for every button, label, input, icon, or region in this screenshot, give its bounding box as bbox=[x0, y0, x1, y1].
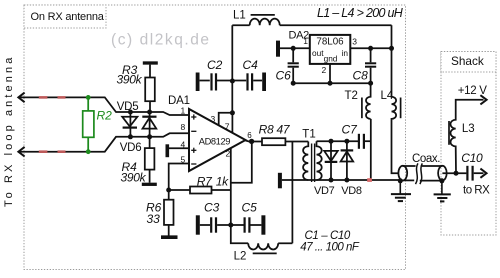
junction dot pins 3,7 bbox=[230, 110, 235, 115]
svg-text:L3: L3 bbox=[462, 123, 475, 135]
wire feedback node to R7 bbox=[169, 189, 190, 191]
svg-text:L1: L1 bbox=[233, 9, 246, 21]
diode VD6 bbox=[142, 112, 156, 137]
svg-text:L1 – L4 > 200 uH: L1 – L4 > 200 uH bbox=[317, 6, 404, 20]
capacitor C2 bbox=[200, 73, 233, 90]
svg-text:C4: C4 bbox=[243, 58, 259, 72]
wire secondary top rail to C7 bbox=[317, 140, 359, 142]
svg-text:1: 1 bbox=[181, 106, 186, 116]
svg-text:C10: C10 bbox=[461, 151, 483, 165]
junction dot feedback node bbox=[166, 188, 171, 193]
junction dot C3/C5 node bbox=[228, 223, 233, 228]
wire coax centre to C10 bbox=[442, 172, 466, 174]
arrow +12V input bbox=[480, 95, 486, 104]
ground bar left of C3 bbox=[196, 215, 200, 234]
capacitor C8 bbox=[365, 48, 376, 83]
junction dot output node bbox=[249, 139, 254, 144]
svg-text:in: in bbox=[342, 48, 349, 58]
junction dot L3 node bbox=[454, 171, 459, 176]
svg-text:VD5: VD5 bbox=[117, 101, 139, 113]
svg-text:VD7: VD7 bbox=[314, 185, 335, 197]
wire output feedback loop down bbox=[231, 142, 252, 183]
coax shield bottom line bbox=[400, 179, 442, 181]
svg-text:gnd: gnd bbox=[324, 54, 338, 64]
svg-text:C1 – C10: C1 – C10 bbox=[305, 230, 351, 242]
wire pin 5 to feedback node bbox=[169, 164, 189, 191]
wire bottom rail to coax shield bbox=[282, 179, 400, 181]
svg-text:On RX antenna: On RX antenna bbox=[31, 11, 105, 23]
svg-text:47: 47 bbox=[277, 123, 291, 137]
junction dots gnd rail bbox=[291, 81, 373, 86]
resistor R6 bbox=[164, 190, 174, 236]
svg-text:C5: C5 bbox=[242, 201, 258, 215]
capacitor C6 bbox=[288, 48, 299, 83]
red break marks on wire B bbox=[39, 150, 66, 153]
svg-text:390k: 390k bbox=[121, 171, 147, 185]
capacitor C5 bbox=[231, 217, 262, 232]
capacitor C10 bbox=[467, 166, 483, 181]
red break marks on wire A bbox=[39, 96, 66, 99]
ground bar at pin 4 bbox=[166, 144, 170, 157]
transformer T1 secondary winding bbox=[317, 141, 322, 180]
junction dot out node bbox=[291, 46, 296, 51]
junction dot C2/C4 node bbox=[230, 79, 235, 84]
svg-text:C3: C3 bbox=[204, 201, 220, 215]
arrow to RX bbox=[480, 169, 486, 178]
resistor R8 bbox=[262, 138, 285, 145]
diode VD5 bbox=[122, 112, 137, 137]
svg-text:T2: T2 bbox=[345, 90, 358, 102]
ground bar below R4 bbox=[142, 183, 157, 186]
svg-text:T1: T1 bbox=[302, 129, 315, 141]
svg-text:33: 33 bbox=[147, 212, 161, 226]
wire T2 bottom to rail bbox=[370, 119, 372, 180]
core bar of L1 bbox=[251, 14, 275, 16]
wire pin 7 to supply line bbox=[231, 113, 233, 133]
label box Shack bbox=[441, 52, 496, 73]
svg-text:DA1: DA1 bbox=[168, 95, 190, 107]
core bar of T2 bbox=[361, 98, 363, 119]
junction dots VD7/VD8 rails bbox=[329, 139, 350, 183]
svg-text:R7: R7 bbox=[197, 175, 213, 189]
wire R7 to pin 2 line bbox=[212, 189, 231, 191]
ground bar above R3 bbox=[143, 61, 158, 64]
inductor L1 bbox=[250, 19, 280, 26]
svg-text:3: 3 bbox=[211, 114, 216, 124]
coax right connector bbox=[438, 166, 447, 181]
ground bar right of C5 bbox=[261, 215, 265, 234]
wire pin 2 down to C3/C5 node and L2 bbox=[231, 148, 248, 243]
ground bar left of C2 bbox=[196, 73, 200, 92]
svg-text:8: 8 bbox=[181, 122, 186, 132]
wire: antenna input B to diode bottom rail / pin 8 bbox=[19, 133, 189, 151]
wire pin 4 to ground bar bbox=[169, 147, 189, 149]
svg-text:out: out bbox=[312, 48, 324, 58]
svg-text:(c) dl2kq.de: (c) dl2kq.de bbox=[111, 32, 211, 49]
capacitor C4 bbox=[232, 73, 262, 90]
wire pin 6 output to R8 bbox=[246, 141, 263, 142]
svg-text:7: 7 bbox=[225, 122, 230, 132]
wire R8 to T1 primary bbox=[285, 141, 308, 143]
svg-text:R2: R2 bbox=[97, 109, 113, 123]
svg-text:To RX loop antenna: To RX loop antenna bbox=[3, 55, 15, 207]
svg-text:6: 6 bbox=[247, 131, 252, 140]
wire +12V rail corner down to DA2 in bbox=[391, 25, 393, 48]
inductor L3 with riser to +12V feed bbox=[451, 100, 484, 173]
svg-text:+12 V: +12 V bbox=[458, 85, 488, 97]
svg-text:2: 2 bbox=[226, 149, 231, 159]
junction dot +12V rail bbox=[389, 46, 394, 51]
resistor R3 bbox=[145, 65, 155, 112]
svg-text:1: 1 bbox=[303, 36, 308, 46]
svg-text:C6: C6 bbox=[276, 69, 292, 83]
ground bar at DA2 out bbox=[276, 41, 280, 57]
ground symbol right of coax bbox=[434, 181, 451, 202]
core bar of L3 bbox=[448, 121, 450, 145]
enclosure box: On RX antenna unit bbox=[24, 5, 406, 270]
wire L2 to riser bbox=[278, 242, 292, 244]
svg-text:1k: 1k bbox=[216, 175, 229, 189]
wire gnd rail C6-C8 bbox=[293, 82, 370, 84]
coax break squiggles bbox=[416, 163, 423, 184]
wire: antenna input A to diode top rail / pin 1 bbox=[19, 97, 189, 115]
wire riser from L2 to R8/T1 node bbox=[291, 142, 293, 244]
junction dot right shield bbox=[439, 178, 444, 183]
svg-text:3: 3 bbox=[352, 37, 357, 47]
wire supply line to L1 bbox=[232, 24, 249, 26]
polarity marks inside DA1 bbox=[191, 114, 196, 164]
wire: supply line from L1 down to pins 3,7 bbox=[231, 25, 233, 113]
svg-text:VD6: VD6 bbox=[120, 142, 142, 154]
transformer T1 core bbox=[312, 144, 315, 183]
enclosure box: Shack bbox=[441, 52, 496, 236]
svg-text:78L06: 78L06 bbox=[316, 37, 344, 48]
inductor L4 winding and +12V riser to coax bbox=[392, 48, 399, 173]
inductor T2 winding bbox=[366, 83, 371, 119]
red junction mark bbox=[367, 178, 372, 182]
wire DA2 in pin 3 to +12V rail bbox=[350, 47, 391, 49]
wire DA2 gnd pin 2 bbox=[329, 64, 331, 83]
svg-text:390k: 390k bbox=[117, 73, 143, 87]
coax left connector bbox=[398, 166, 407, 181]
capacitor C3 bbox=[200, 217, 231, 232]
svg-text:47 ... 100 nF: 47 ... 100 nF bbox=[300, 241, 360, 253]
svg-text:R8: R8 bbox=[259, 123, 274, 137]
svg-text:Shack: Shack bbox=[451, 54, 484, 68]
svg-text:to RX: to RX bbox=[463, 184, 490, 196]
core bar of L2 bbox=[253, 252, 277, 254]
resistor R4 bbox=[145, 137, 155, 183]
svg-text:VD8: VD8 bbox=[341, 185, 362, 197]
op-amp DA1 AD8129 body bbox=[189, 109, 246, 171]
wire DA2 out pin 1 bbox=[280, 47, 310, 49]
svg-text:C7: C7 bbox=[342, 123, 359, 137]
junction dot left shield bbox=[398, 178, 403, 183]
wire pin 3 to supply line bbox=[219, 113, 233, 126]
diode VD8 bbox=[341, 141, 354, 180]
core bar of L4 bbox=[400, 98, 402, 119]
diode VD7 bbox=[324, 141, 338, 180]
capacitor C7 bbox=[359, 134, 371, 149]
svg-text:Coax.: Coax. bbox=[412, 153, 440, 165]
resistor R2 (green, across antenna terminals) bbox=[83, 95, 94, 154]
wire L1 to +12V rail bbox=[280, 24, 392, 26]
svg-text:AD8129: AD8129 bbox=[199, 136, 230, 146]
svg-text:C2: C2 bbox=[207, 58, 223, 72]
coax shield top line bbox=[403, 165, 443, 167]
ground bar right of C4 bbox=[262, 73, 266, 92]
ground bar at T1 primary bbox=[278, 173, 282, 189]
regulator DA2 78L06 body bbox=[310, 35, 351, 64]
inductor L2 bbox=[248, 243, 278, 249]
arrow to antenna terminal A bbox=[18, 93, 24, 103]
arrow to antenna terminal B bbox=[18, 147, 24, 157]
ground symbol left of coax bbox=[391, 181, 411, 201]
label box On RX antenna bbox=[24, 5, 106, 28]
junction dot C8 top bbox=[368, 46, 373, 51]
resistor R7 bbox=[190, 187, 212, 194]
svg-text:2: 2 bbox=[322, 65, 327, 75]
junction dots on diode rails bbox=[128, 110, 152, 140]
ground bar below R6 bbox=[161, 235, 178, 239]
transformer T1 primary winding bbox=[303, 142, 308, 181]
svg-text:C8: C8 bbox=[353, 69, 369, 83]
svg-text:L2: L2 bbox=[234, 251, 247, 263]
